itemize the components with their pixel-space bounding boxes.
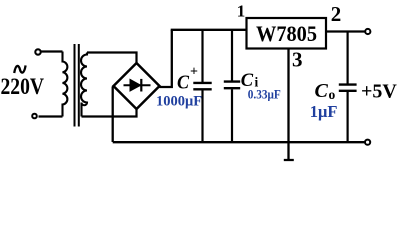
bridge rectifier diamond (114, 63, 160, 109)
svg-text:C: C (315, 80, 329, 102)
regulator U1 W7805 box (247, 18, 327, 49)
svg-text:+5V: +5V (361, 81, 397, 103)
capacitor Co leads (347, 32, 349, 143)
wire primary bottom lead (39, 115, 63, 117)
transformer core (75, 44, 79, 127)
capacitor Ci plates (224, 82, 240, 89)
wire bridge DC+ (right vertex) to top rail (160, 30, 172, 87)
wire top rail (bridge to regulator pin 1) (171, 29, 247, 31)
svg-text:1: 1 (237, 2, 246, 21)
wire primary top lead (41, 50, 63, 52)
terminal AC input bottom (32, 114, 37, 119)
wire secondary bottom to bridge AC bottom vertex (82, 109, 137, 117)
ground (284, 142, 294, 160)
svg-text:1μF: 1μF (310, 102, 338, 121)
svg-text:2: 2 (331, 2, 342, 26)
svg-text:o: o (329, 87, 336, 102)
capacitor Co plates (339, 85, 357, 91)
svg-text:W7805: W7805 (256, 21, 317, 46)
wire bridge DC- (left vertex) down to ground rail (112, 87, 114, 143)
capacitor C leads (201, 29, 203, 142)
wire pin 3 to ground rail (287, 49, 289, 143)
svg-text:+: + (190, 65, 198, 80)
terminal output + (365, 29, 370, 34)
wire ground rail (bottom) (113, 141, 365, 143)
wire pin 2 to output terminal (326, 30, 365, 32)
wire secondary top to bridge AC top vertex (87, 53, 137, 64)
bridge inner diode (124, 79, 151, 92)
svg-text:3: 3 (292, 48, 303, 72)
svg-text:1000μF: 1000μF (156, 94, 202, 110)
svg-text:0.33μF: 0.33μF (248, 87, 281, 102)
svg-text:C: C (177, 72, 190, 94)
terminal output - (365, 140, 370, 145)
svg-text:220V: 220V (1, 74, 45, 99)
label ~ (AC) (14, 65, 25, 73)
terminal AC input top (35, 49, 40, 54)
transformer primary winding (63, 52, 68, 117)
capacitor C plates (193, 83, 211, 89)
capacitor Ci leads (231, 29, 233, 142)
transformer secondary winding (81, 53, 87, 117)
